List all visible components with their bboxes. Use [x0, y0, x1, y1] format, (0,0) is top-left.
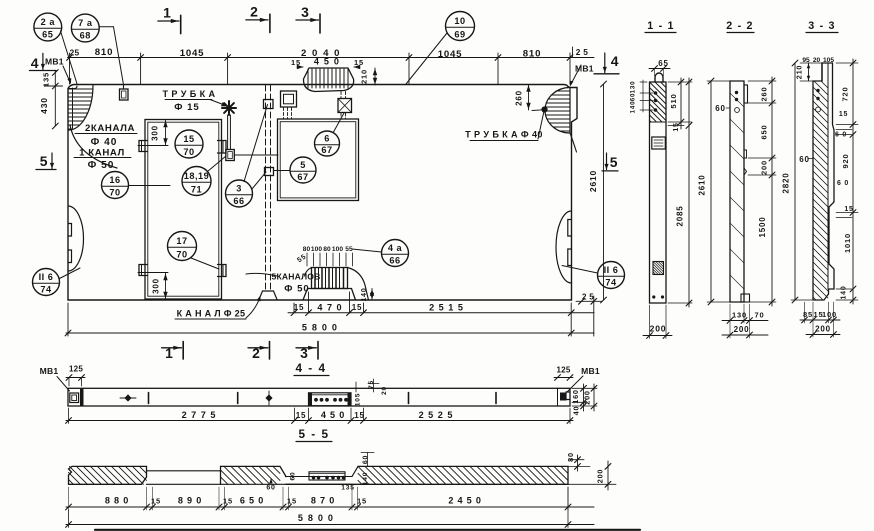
svg-text:140: 140 — [841, 286, 848, 300]
svg-text:17: 17 — [176, 236, 187, 246]
5 channels d50 block — [303, 268, 369, 301]
svg-text:К А Н А Л Ф 25: К А Н А Л Ф 25 — [177, 309, 246, 319]
callout II6/74 left — [33, 268, 81, 296]
svg-text:2 5 2 5: 2 5 2 5 — [419, 410, 454, 420]
svg-text:4: 4 — [611, 53, 620, 69]
svg-text:720: 720 — [841, 87, 850, 102]
svg-text:200: 200 — [734, 325, 750, 334]
leader 17/70 — [191, 258, 219, 269]
svg-text:2 5: 2 5 — [582, 293, 594, 302]
leader 6/67 — [334, 113, 345, 132]
rebar mark diamond 2 — [265, 391, 272, 405]
label trubka d15 — [163, 89, 228, 113]
svg-text:1: 1 — [163, 5, 171, 21]
double box fitting above square — [281, 91, 297, 119]
svg-text:80: 80 — [323, 246, 331, 253]
svg-text:МВ1: МВ1 — [45, 57, 64, 67]
450 wide recess block top — [303, 68, 353, 92]
svg-text:4 - 4: 4 - 4 — [295, 362, 326, 375]
MB1 label right + dim 125 — [554, 366, 600, 392]
svg-text:80: 80 — [303, 246, 311, 253]
dims 160/200/40 right end — [571, 384, 597, 415]
svg-text:2 - 2: 2 - 2 — [726, 20, 753, 32]
svg-text:Ф 50: Ф 50 — [284, 284, 310, 295]
svg-text:2: 2 — [250, 4, 258, 20]
svg-text:2 4 5 0: 2 4 5 0 — [448, 496, 481, 506]
svg-text:55: 55 — [296, 253, 308, 264]
svg-text:МВ1: МВ1 — [40, 366, 59, 376]
svg-text:5: 5 — [300, 160, 306, 170]
svg-text:2 7 7 5: 2 7 7 5 — [182, 410, 217, 420]
dims 450 block — [291, 48, 377, 85]
1-1 small dims left — [630, 80, 654, 113]
section marker 2 top — [246, 4, 270, 33]
marker 5 left — [36, 153, 56, 170]
svg-text:15: 15 — [673, 122, 680, 131]
3-3 dim 60 left — [799, 155, 813, 164]
label trubka d40 — [465, 111, 544, 141]
svg-text:200: 200 — [596, 469, 605, 484]
svg-text:Ф 15: Ф 15 — [174, 102, 200, 113]
svg-text:5 8 0 0: 5 8 0 0 — [302, 323, 338, 333]
labels 2 kanala d40 / 1 kanal d50 — [74, 123, 137, 171]
title 2-2 — [726, 20, 754, 33]
callout 2a/65 — [34, 13, 77, 83]
svg-text:5КАНАЛОВ: 5КАНАЛОВ — [271, 272, 320, 282]
1-1 lifting loop — [655, 73, 663, 82]
wire fitting to channel — [234, 154, 278, 156]
svg-text:15: 15 — [151, 497, 161, 506]
title 1-1 — [645, 20, 676, 33]
svg-text:Ф 40: Ф 40 — [91, 137, 118, 148]
svg-text:810: 810 — [523, 49, 541, 60]
callout 10/69 — [406, 12, 475, 85]
svg-text:100: 100 — [332, 246, 344, 253]
small dims 60/140/135 on 5-5 — [266, 453, 374, 492]
trubka d40 fan — [542, 88, 577, 153]
leader 16/70 — [129, 185, 171, 187]
svg-text:25: 25 — [70, 48, 80, 58]
MB1 insert left end — [70, 388, 83, 406]
1-1 dim 200 — [643, 305, 672, 339]
svg-text:300: 300 — [152, 278, 161, 294]
fitting bottom-right of rect — [218, 265, 227, 277]
svg-text:68: 68 — [80, 31, 91, 41]
svg-text:140: 140 — [362, 472, 369, 485]
dims 80 100 80 100 55 — [296, 246, 353, 266]
svg-text:18,19: 18,19 — [184, 171, 210, 181]
dims 75/20/105 in 4-4 — [355, 379, 388, 406]
fitting on channel lower — [265, 168, 274, 176]
callout 6/67 — [315, 131, 340, 156]
svg-text:1045: 1045 — [180, 48, 205, 59]
5-5 hatched segment 650 — [221, 466, 287, 484]
2-2 dim 2610 — [698, 78, 731, 305]
MB1 insert right end — [558, 388, 571, 406]
svg-text:140: 140 — [630, 101, 637, 114]
svg-text:130: 130 — [630, 81, 637, 94]
leader 18,19/71 — [208, 156, 227, 172]
svg-text:15: 15 — [296, 411, 307, 420]
3-3 dims 720/15/60/920/60/15/1010/140 — [835, 59, 858, 304]
svg-text:15: 15 — [291, 58, 301, 67]
dim 5800 plan — [65, 303, 594, 336]
svg-text:1045: 1045 — [438, 49, 463, 60]
svg-text:100: 100 — [311, 246, 323, 253]
1-1 bottom dots — [652, 295, 664, 298]
kanal d25 dashed channel — [259, 85, 277, 300]
callout 18,19/71 — [182, 167, 211, 196]
svg-text:15: 15 — [294, 303, 305, 312]
2 channels d40 corner duct hatch — [69, 85, 118, 168]
svg-text:200: 200 — [760, 160, 769, 175]
svg-text:200: 200 — [815, 325, 831, 334]
3-3 top dims 95/20/105 — [800, 57, 838, 64]
rebar tick 2 — [237, 393, 239, 404]
svg-text:135: 135 — [341, 485, 354, 492]
svg-text:15: 15 — [352, 303, 363, 312]
dim 140 block — [361, 288, 374, 302]
svg-text:5: 5 — [610, 154, 619, 170]
svg-text:60: 60 — [290, 472, 297, 481]
dim 135 430 left — [39, 70, 63, 129]
svg-text:65: 65 — [658, 59, 669, 68]
panel plan outline — [68, 85, 577, 301]
svg-text:260: 260 — [760, 87, 769, 102]
svg-text:70: 70 — [109, 187, 120, 197]
svg-text:125: 125 — [557, 366, 571, 375]
dims 80/200 right of 5-5 — [566, 452, 616, 490]
callout 5/67 — [290, 157, 316, 183]
svg-text:4 5 0: 4 5 0 — [321, 410, 345, 420]
svg-text:200: 200 — [582, 390, 591, 405]
fitting top-left of rect — [139, 141, 147, 152]
svg-text:160: 160 — [571, 389, 580, 404]
svg-text:5 - 5: 5 - 5 — [298, 428, 329, 441]
svg-text:4 a: 4 a — [388, 243, 403, 253]
svg-text:15: 15 — [844, 206, 853, 213]
svg-text:10: 10 — [454, 16, 465, 26]
svg-text:15: 15 — [287, 497, 297, 506]
svg-text:20: 20 — [381, 386, 388, 395]
leader 5/67 — [274, 170, 291, 172]
svg-text:1 КАНАЛ: 1 КАНАЛ — [79, 148, 125, 159]
fitting top-right of rect — [218, 141, 227, 154]
1-1 column outline — [650, 82, 667, 303]
svg-text:920: 920 — [841, 154, 850, 169]
svg-text:260: 260 — [515, 90, 524, 106]
callout 3/66 — [226, 180, 253, 207]
svg-text:15: 15 — [357, 497, 367, 506]
svg-text:15: 15 — [839, 111, 848, 118]
svg-text:8 8 0: 8 8 0 — [105, 496, 129, 506]
2-2 anchor dots — [735, 91, 740, 113]
2-2 dims 260/650/200/1500 — [748, 77, 776, 306]
svg-text:70: 70 — [183, 147, 194, 157]
svg-text:1010: 1010 — [843, 233, 852, 253]
svg-text:2 5 1 5: 2 5 1 5 — [429, 303, 464, 313]
svg-text:70: 70 — [176, 249, 187, 259]
svg-text:Ф 50: Ф 50 — [88, 160, 115, 171]
dim 260 — [515, 85, 544, 111]
3-3 column outline — [813, 63, 834, 300]
1-1 hatched top zone — [650, 82, 667, 122]
callout II6/74 right — [562, 262, 625, 289]
svg-text:2610: 2610 — [588, 170, 598, 192]
svg-text:2085: 2085 — [676, 205, 685, 226]
svg-text:5 8 0 0: 5 8 0 0 — [298, 513, 334, 523]
5-5 recess 870 with insert — [286, 466, 358, 484]
2-2 column outline — [730, 81, 750, 302]
svg-text:70: 70 — [755, 311, 765, 320]
label 5 kanalov d50 — [246, 272, 321, 295]
svg-text:650: 650 — [760, 125, 769, 140]
svg-text:II 6: II 6 — [604, 265, 619, 275]
svg-text:105: 105 — [355, 393, 362, 406]
callout 7a/68 — [71, 14, 123, 83]
svg-text:6 0: 6 0 — [835, 132, 847, 139]
svg-text:1 - 1: 1 - 1 — [647, 20, 674, 32]
svg-text:Т Р У Б К А Ф 40: Т Р У Б К А Ф 40 — [465, 130, 543, 140]
svg-text:15: 15 — [183, 134, 194, 144]
leader 3/66 long — [244, 105, 268, 182]
callout 16/70 — [102, 172, 129, 199]
svg-text:7 a: 7 a — [78, 18, 93, 28]
leader 3/66 short — [252, 172, 266, 189]
svg-text:66: 66 — [233, 196, 244, 206]
fitting on top edge — [120, 85, 129, 101]
right edge void arc — [556, 211, 572, 283]
svg-text:2КАНАЛА: 2КАНАЛА — [85, 123, 135, 134]
scan artifact line — [95, 529, 640, 531]
svg-text:6 0: 6 0 — [837, 180, 849, 187]
svg-text:4 7 0: 4 7 0 — [317, 303, 342, 313]
section 4-4 bar — [68, 388, 570, 406]
svg-text:60: 60 — [363, 455, 370, 464]
svg-text:100: 100 — [822, 310, 837, 319]
trubka d15 star and drop line — [222, 101, 236, 149]
svg-text:3 - 3: 3 - 3 — [808, 20, 835, 32]
section marker 3 top — [296, 4, 320, 33]
section marker 2 bottom — [248, 342, 270, 362]
3-3 anchor dots — [816, 89, 821, 112]
svg-text:200: 200 — [650, 324, 667, 334]
2-2 dims 130/70/200 — [722, 304, 768, 338]
small box on rect edge — [226, 150, 235, 161]
dim row 880/15/890/15/650/15/870/15/2450 — [66, 487, 594, 510]
svg-text:71: 71 — [191, 184, 202, 194]
1-1 insert upper — [652, 137, 666, 149]
svg-text:74: 74 — [605, 277, 617, 287]
title 3-3 — [806, 20, 838, 33]
svg-text:135: 135 — [42, 72, 51, 87]
section marker 3 bottom — [296, 342, 318, 362]
svg-text:210: 210 — [360, 69, 369, 84]
svg-text:55: 55 — [345, 246, 353, 253]
svg-text:210: 210 — [795, 65, 804, 80]
MB1 label left + dim 125 — [40, 365, 85, 392]
svg-text:75: 75 — [368, 380, 375, 389]
3-3 dim 210 — [795, 63, 823, 81]
x-box fitting above square — [338, 92, 352, 120]
svg-text:67: 67 — [321, 145, 332, 155]
right opening square — [278, 119, 359, 201]
svg-text:6: 6 — [324, 133, 330, 143]
title 4-4 — [294, 362, 329, 376]
svg-text:60: 60 — [630, 93, 637, 101]
svg-text:65: 65 — [42, 30, 53, 40]
svg-text:67: 67 — [297, 172, 308, 182]
3-3 dims 85/15/100 and 200 — [800, 302, 840, 337]
svg-text:3: 3 — [301, 4, 309, 20]
dim 300 top — [138, 120, 168, 146]
rebar tick 4 — [495, 393, 497, 404]
svg-text:140: 140 — [361, 288, 368, 302]
1-1 insert hatched square — [653, 262, 664, 275]
1-1 dims 510/15/2085 — [668, 78, 692, 307]
5-5 recess 890 — [147, 466, 221, 484]
svg-text:69: 69 — [454, 29, 465, 39]
fitting bottom-left of rect — [139, 265, 147, 276]
svg-text:МВ1: МВ1 — [581, 366, 600, 376]
svg-text:40: 40 — [572, 406, 581, 416]
2-2 dim 60 — [715, 104, 730, 113]
svg-text:300: 300 — [151, 125, 160, 141]
5-5 hatched segment 2450 — [286, 466, 568, 484]
1-1 dim 65 — [649, 59, 670, 76]
svg-text:2 a: 2 a — [41, 17, 56, 27]
fitting on channel upper — [264, 100, 274, 109]
rebar mark diamond 1 — [120, 394, 136, 401]
5-5 hatched segment 880 — [69, 466, 147, 484]
svg-text:80: 80 — [566, 452, 575, 462]
svg-text:66: 66 — [389, 255, 400, 265]
top dimension line 25/810/1045/2040/1045/810/25 — [67, 47, 594, 84]
rebar tick 1 — [148, 393, 150, 404]
marker 4 right with MB1 — [570, 53, 620, 87]
svg-text:15: 15 — [354, 411, 365, 420]
svg-text:60: 60 — [799, 155, 810, 164]
section marker 1 bottom — [162, 342, 184, 362]
svg-text:15: 15 — [223, 497, 233, 506]
svg-text:8 9 0: 8 9 0 — [178, 496, 202, 506]
dim 300 bottom — [138, 273, 168, 300]
svg-text:1500: 1500 — [758, 216, 767, 237]
marker 5 right — [602, 153, 618, 171]
section marker 1 top — [158, 5, 181, 34]
left opening rect — [145, 120, 222, 300]
svg-text:2 5: 2 5 — [576, 47, 589, 57]
svg-text:130: 130 — [732, 311, 747, 320]
svg-text:8 7 0: 8 7 0 — [311, 496, 335, 506]
callout 15/70 — [175, 130, 203, 158]
svg-text:Т Р У Б К А: Т Р У Б К А — [163, 89, 216, 99]
svg-text:II 6: II 6 — [39, 272, 54, 282]
svg-text:2820: 2820 — [782, 172, 791, 193]
450 insert block in 4-4 — [309, 393, 352, 406]
dim row 15/470/15/2515/25 — [288, 292, 602, 336]
dim 2610 right — [579, 81, 608, 303]
svg-text:2610: 2610 — [698, 174, 707, 195]
svg-text:430: 430 — [39, 97, 49, 114]
svg-text:6 5 0: 6 5 0 — [240, 496, 264, 506]
svg-text:4: 4 — [31, 55, 40, 71]
svg-text:5: 5 — [40, 153, 49, 169]
svg-text:60: 60 — [715, 104, 726, 113]
dim 5800 section 5-5 — [66, 487, 594, 528]
dim row 2775/15/450/15/2525 — [66, 408, 573, 424]
3-3 dim 2820 — [782, 60, 814, 303]
label kanal d25 — [175, 296, 261, 320]
svg-text:810: 810 — [95, 47, 113, 58]
svg-text:16: 16 — [109, 175, 120, 185]
svg-text:510: 510 — [669, 93, 678, 108]
rebar tick 3 — [408, 393, 410, 404]
left edge void arc — [68, 206, 83, 271]
marker 4 left with MB1 — [30, 53, 72, 84]
svg-text:60: 60 — [266, 485, 275, 492]
svg-text:125: 125 — [69, 365, 83, 374]
svg-text:3: 3 — [236, 183, 242, 193]
callout 4a/66 — [352, 240, 409, 267]
title 5-5 — [296, 428, 332, 442]
svg-text:74: 74 — [40, 284, 52, 294]
callout 17/70 — [168, 232, 197, 261]
